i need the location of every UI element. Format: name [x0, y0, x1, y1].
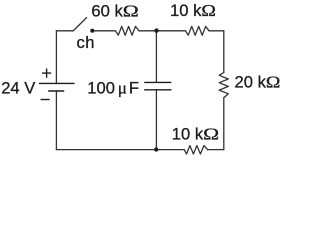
- wire: bottom left horizontal: [56, 149, 156, 151]
- wire: switch contact to 60k resistor: [94, 30, 115, 32]
- bottom node junction dot: [154, 147, 158, 151]
- wire: 10k top to top-right corner: [209, 30, 224, 32]
- capacitor C bottom plate: [144, 89, 171, 91]
- wire: right vertical upper: [223, 31, 225, 73]
- resistor 10 kOhm (bottom) zigzag: [184, 146, 207, 154]
- wire: top node to 10k resistor: [157, 30, 186, 32]
- wire: bottom-right corner to 10k bottom: [208, 149, 224, 151]
- svg-text:100μ F: 100μ F: [87, 78, 139, 97]
- wire: left vertical above battery: [55, 31, 57, 84]
- resistor 10 kOhm (top) zigzag: [186, 26, 210, 35]
- wire: top-left horizontal to switch pole: [56, 30, 73, 32]
- switch ch blade (open): [73, 18, 87, 31]
- battery minus sign: [41, 99, 50, 101]
- resistor 60 kOhm zigzag: [116, 26, 140, 35]
- svg-text:60 kΩ: 60 kΩ: [91, 1, 138, 20]
- svg-text:10 kΩ: 10 kΩ: [170, 1, 216, 20]
- svg-text:24 V: 24 V: [1, 78, 35, 97]
- battery 24V negative plate (short): [48, 90, 64, 92]
- svg-text:10 kΩ: 10 kΩ: [172, 124, 219, 143]
- capacitor C top plate: [144, 81, 171, 83]
- wire: left vertical below battery: [55, 91, 57, 150]
- battery 24V positive plate (long): [39, 82, 75, 84]
- battery plus sign: [42, 69, 51, 78]
- wire: right vertical lower: [223, 98, 225, 150]
- svg-text:ch: ch: [77, 33, 96, 52]
- wire: capacitor branch upper: [155, 31, 157, 83]
- resistor 20 kOhm vertical zigzag: [219, 73, 228, 98]
- top node junction dot: [154, 28, 158, 32]
- wire: bottom node to 10k bottom: [156, 149, 184, 151]
- wire: 60k to top node: [139, 30, 157, 32]
- wire: capacitor branch lower: [155, 90, 157, 150]
- switch contact dot: [90, 29, 94, 33]
- svg-text:20 kΩ: 20 kΩ: [235, 72, 281, 91]
